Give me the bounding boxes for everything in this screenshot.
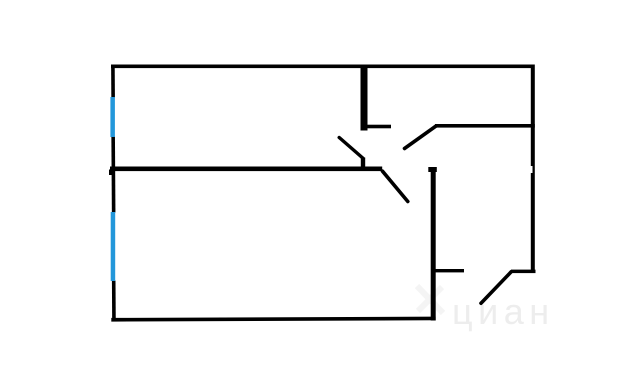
right wall notch xyxy=(530,166,532,173)
window upper-left xyxy=(110,97,115,137)
bottom wall xyxy=(111,317,435,322)
door leaf C xyxy=(405,126,437,149)
door leaf A xyxy=(339,138,363,159)
left wall upper segment xyxy=(111,65,115,98)
top-right room bottom wall xyxy=(435,124,535,128)
door jamb top of lower-right wall xyxy=(428,167,437,172)
door leaf D xyxy=(481,272,511,303)
left wall lower segment xyxy=(112,281,116,322)
stub wall below bar xyxy=(365,125,391,129)
top wall xyxy=(111,65,535,69)
svg-text:циан: циан xyxy=(452,291,555,332)
right wall xyxy=(531,65,535,274)
watermark logo cross xyxy=(417,286,443,313)
interior main wall xyxy=(110,167,382,172)
window lower-left xyxy=(111,212,116,281)
left wall middle segment xyxy=(111,137,115,213)
door jamb A xyxy=(361,158,365,168)
bottom-right wall tick xyxy=(511,270,536,274)
door leaf B xyxy=(383,171,408,201)
wall stub right of lower-right wall xyxy=(433,269,464,272)
thick bar wall top-center xyxy=(361,65,368,131)
interior wall lower-right vertical xyxy=(431,167,436,321)
interior wall nub xyxy=(109,170,112,176)
